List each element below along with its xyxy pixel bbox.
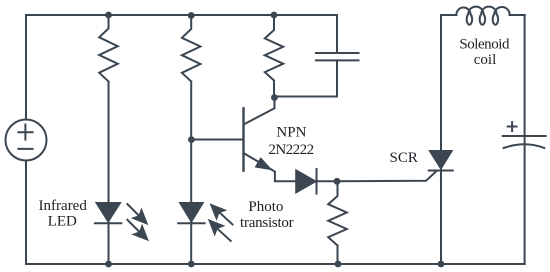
svg-text:Solenoid: Solenoid <box>459 36 510 52</box>
wire R4 to bottom <box>337 246 339 265</box>
solenoid L1 right lead <box>510 14 525 16</box>
voltage source V1 <box>6 120 47 161</box>
photo arrow 1 <box>211 205 232 224</box>
solenoid L1 left lead <box>441 14 456 16</box>
wire diode to gate node <box>317 180 338 182</box>
SCR anode wire <box>440 15 442 264</box>
wire C1 to collector node <box>275 60 337 96</box>
capacitor C2 plus sign <box>508 122 517 131</box>
wire left rail lower <box>25 161 27 265</box>
wire R1 to LED <box>108 82 110 265</box>
photo transistor Q2 <box>180 203 202 221</box>
capacitor C1 branch wire <box>336 15 338 53</box>
LED emission arrow 2 <box>127 220 147 240</box>
emitter arrowhead <box>256 159 270 169</box>
wire gate node to SCR gate <box>337 171 437 182</box>
wire bottom rail <box>26 263 525 265</box>
wire top rail <box>26 14 337 16</box>
wire solenoid to capacitor C2 <box>524 15 526 264</box>
junction node dots <box>105 12 112 19</box>
svg-text:LED: LED <box>48 214 77 230</box>
wire base tap <box>191 139 242 141</box>
infrared LED D1 <box>97 203 120 221</box>
svg-text:SCR: SCR <box>390 150 418 166</box>
svg-text:Infrared: Infrared <box>39 198 88 214</box>
capacitor C2 <box>503 135 546 137</box>
capacitor C1 <box>316 52 359 54</box>
wire left rail upper <box>25 15 27 120</box>
transistor Q1 bar <box>242 108 244 170</box>
svg-text:coil: coil <box>474 52 497 68</box>
svg-text:Photo: Photo <box>248 199 283 215</box>
wire R2 to photo transistor <box>190 82 192 265</box>
wire R3 to collector node <box>273 81 275 98</box>
resistor R3 <box>265 15 283 81</box>
svg-text:2N2222: 2N2222 <box>268 142 313 158</box>
transistor Q1 collector <box>244 97 275 125</box>
resistor R2 <box>182 16 201 82</box>
svg-text:transistor: transistor <box>240 215 294 231</box>
SCR <box>430 151 452 168</box>
svg-text:NPN: NPN <box>276 125 306 141</box>
solenoid L1 coil <box>456 7 509 25</box>
photo arrow 2 <box>210 221 231 241</box>
resistor R1 <box>99 15 118 82</box>
transistor Q1 emitter <box>244 153 297 181</box>
LED emission arrow 1 <box>127 204 146 223</box>
diode D2 <box>296 171 315 193</box>
resistor R4 <box>328 181 347 245</box>
